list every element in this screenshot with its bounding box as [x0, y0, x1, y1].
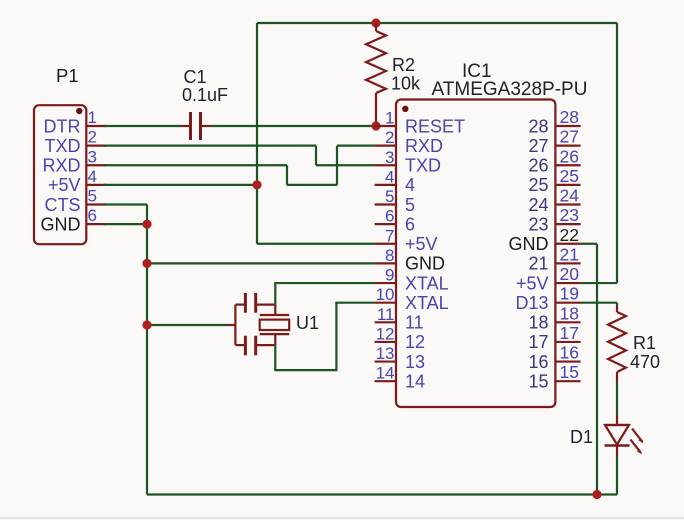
wire XTAL1 net: resonator to IC1.9: [275, 283, 374, 305]
wire +5V drop to IC1.20: [581, 23, 617, 283]
IC1 pin 10 XTAL: [375, 285, 449, 313]
IC1 pin 18 18: [528, 303, 580, 332]
P1 pin 6 GND: [41, 206, 107, 234]
svg-text:22: 22: [560, 225, 579, 245]
svg-text:17: 17: [528, 332, 548, 352]
svg-text:P1: P1: [56, 65, 79, 86]
IC1 pin 26 26: [528, 146, 580, 175]
svg-text:R2: R2: [392, 55, 415, 75]
svg-text:26: 26: [560, 146, 579, 166]
svg-text:4: 4: [405, 175, 415, 195]
wire GND from IC1.22: [581, 244, 597, 495]
svg-text:15: 15: [560, 362, 579, 382]
IC1 pin 17 17: [528, 323, 580, 352]
wire DTR net: P1.1 to C1: [104, 125, 181, 127]
svg-text:3: 3: [88, 147, 97, 166]
wire RESET net: C1 to IC1.1: [211, 125, 375, 127]
svg-text:6: 6: [88, 206, 97, 225]
wire GND left rail vertical: [146, 205, 148, 495]
svg-text:9: 9: [385, 266, 394, 285]
svg-text:+5V: +5V: [516, 273, 549, 293]
svg-text:R1: R1: [633, 333, 656, 353]
IC1 pin 4 4: [375, 167, 415, 195]
P1 pin 2 TXD: [45, 128, 107, 156]
svg-text:15: 15: [528, 371, 548, 391]
IC1 pin 14 14: [375, 364, 425, 392]
IC1 pin 12 12: [375, 324, 425, 352]
svg-text:U1: U1: [296, 313, 319, 333]
svg-text:25: 25: [528, 175, 548, 195]
svg-text:28: 28: [560, 107, 579, 127]
svg-text:ATMEGA328P-PU: ATMEGA328P-PU: [432, 79, 588, 100]
svg-text:TXD: TXD: [45, 136, 81, 156]
wire XTAL2 net: resonator to IC1.10: [275, 303, 374, 370]
D1 name label: [570, 427, 593, 447]
svg-text:0.1uF: 0.1uF: [182, 85, 228, 105]
svg-text:18: 18: [528, 313, 548, 333]
wire +5V net: P1.4 to riser: [104, 184, 257, 186]
svg-text:10k: 10k: [391, 74, 421, 94]
R1 name label: [633, 333, 656, 353]
svg-text:D13: D13: [515, 293, 548, 313]
R2 name label: [392, 55, 415, 75]
svg-text:8: 8: [385, 246, 394, 265]
svg-text:2: 2: [88, 128, 97, 147]
IC1 pin 3 TXD: [375, 148, 441, 176]
wire RXD net: P1.3 to jog: [104, 164, 287, 166]
IC1 pin 19 D13: [515, 284, 580, 313]
svg-text:2: 2: [385, 128, 394, 147]
svg-text:4: 4: [385, 167, 394, 186]
wire TXD net into IC1.3: [316, 164, 375, 166]
wire TXD jog down: [315, 146, 317, 166]
wire +5V riser vertical: [256, 23, 258, 244]
svg-text:27: 27: [560, 127, 579, 147]
P1 pin 3 RXD: [42, 147, 106, 175]
svg-text:XTAL: XTAL: [405, 273, 449, 293]
IC1 pin 24 24: [528, 186, 580, 215]
svg-text:5: 5: [88, 187, 97, 206]
P1 pin 1 DTR: [44, 108, 107, 136]
svg-text:7: 7: [385, 226, 394, 245]
svg-text:13: 13: [376, 344, 395, 363]
svg-text:21: 21: [528, 254, 548, 274]
IC1 pin 13 13: [375, 344, 425, 372]
svg-text:DTR: DTR: [44, 116, 81, 136]
wire D13 net: IC1.19 to R1: [581, 303, 617, 306]
svg-text:4: 4: [88, 167, 97, 186]
wire D1 to GND bottom rail: [616, 456, 618, 495]
IC1 pin 15 15: [528, 362, 580, 391]
IC1 pin 2 RXD: [375, 128, 443, 156]
connector P1: [34, 105, 86, 244]
R1 value 470: [630, 352, 660, 372]
svg-text:26: 26: [528, 156, 548, 176]
wire GND into IC1.8: [147, 262, 375, 264]
P1 pin 4 +5V: [48, 167, 106, 195]
svg-text:CTS: CTS: [45, 195, 81, 215]
C1 value 0.1uF: [182, 85, 228, 105]
P1 pin 5 CTS: [45, 187, 107, 215]
IC1 pin 7 +5V: [375, 226, 438, 254]
IC1 pin 6 6: [375, 207, 415, 235]
svg-text:TXD: TXD: [405, 156, 441, 176]
IC1 pin 25 25: [528, 166, 580, 195]
svg-text:20: 20: [560, 264, 580, 284]
svg-text:11: 11: [377, 305, 395, 324]
svg-text:16: 16: [528, 352, 548, 372]
svg-text:24: 24: [560, 186, 580, 206]
IC1 pin 23 23: [528, 205, 580, 234]
svg-text:11: 11: [405, 313, 424, 333]
P1 reference label: [56, 65, 79, 86]
svg-text:19: 19: [560, 284, 579, 304]
svg-text:GND: GND: [41, 214, 81, 234]
junction +5V at P1 row: [252, 180, 261, 189]
U1 name label: [296, 313, 319, 333]
svg-text:17: 17: [560, 323, 579, 343]
svg-text:C1: C1: [184, 67, 207, 87]
svg-text:6: 6: [405, 214, 415, 234]
IC1 pin 28 28: [528, 107, 580, 136]
resistor R1: [608, 306, 626, 382]
svg-text:10: 10: [376, 285, 395, 304]
svg-text:24: 24: [528, 195, 548, 215]
svg-text:5: 5: [385, 187, 394, 206]
junction GND rail at P1.6: [142, 220, 151, 229]
svg-text:14: 14: [376, 364, 395, 383]
capacitor C1: [181, 112, 211, 140]
IC1 value ATMEGA328P-PU: [432, 79, 588, 100]
wire +5V top rail: [257, 22, 617, 24]
IC1 pin 9 XTAL: [375, 266, 449, 294]
svg-text:21: 21: [560, 244, 579, 264]
svg-text:GND: GND: [509, 234, 549, 254]
svg-text:RXD: RXD: [405, 136, 443, 156]
decorative: [0, 517, 684, 519]
wire RXD jog up: [336, 146, 338, 185]
junction GND rail at IC1.8: [142, 259, 151, 268]
wire RXD horizontal jog: [287, 184, 337, 186]
svg-text:23: 23: [528, 214, 548, 234]
svg-text:+5V: +5V: [405, 234, 438, 254]
IC1 pin 21 21: [528, 244, 580, 273]
wire GND net: P1.6 to rail: [104, 223, 147, 225]
junction GND rail at resonator: [142, 320, 151, 329]
svg-text:D1: D1: [570, 427, 593, 447]
svg-text:GND: GND: [405, 254, 445, 274]
svg-text:6: 6: [385, 207, 394, 226]
R2 value 10k: [391, 74, 421, 94]
svg-text:13: 13: [405, 352, 425, 372]
svg-text:16: 16: [560, 343, 579, 363]
LED D1: [605, 415, 644, 456]
wire RXD jog down: [286, 165, 288, 185]
IC1 pin 16 16: [528, 343, 580, 372]
IC1 pin 1 RESET: [375, 109, 465, 137]
svg-text:470: 470: [630, 352, 660, 372]
IC1 pin 5 5: [375, 187, 415, 215]
svg-text:12: 12: [405, 332, 425, 352]
IC1 pin 11 11: [375, 305, 424, 333]
svg-text:23: 23: [560, 205, 579, 225]
wire RXD net into IC1.2: [337, 145, 375, 147]
wire CTS net: P1.5 right: [104, 203, 147, 205]
wire R1 to D1: [616, 382, 618, 415]
svg-text:28: 28: [528, 116, 548, 136]
svg-text:3: 3: [385, 148, 394, 167]
junction R2 bottom / RESET: [371, 121, 380, 130]
svg-text:1: 1: [88, 108, 97, 127]
svg-text:14: 14: [405, 371, 425, 391]
wire TXD net: P1.2 to jog: [104, 145, 316, 147]
IC1 reference label: [462, 61, 492, 82]
svg-text:1: 1: [385, 109, 394, 128]
wire GND bottom rail: [147, 493, 617, 495]
svg-text:27: 27: [528, 136, 548, 156]
svg-text:XTAL: XTAL: [405, 293, 449, 313]
resistor R2: [366, 23, 386, 126]
svg-text:18: 18: [560, 303, 579, 323]
IC1 pin 8 GND: [375, 246, 445, 274]
IC1 pin 20 +5V: [516, 264, 581, 293]
wire GND to resonator: [147, 324, 227, 326]
svg-text:RXD: RXD: [42, 156, 80, 176]
svg-text:+5V: +5V: [48, 175, 81, 195]
resonator U1: [227, 293, 289, 355]
svg-text:25: 25: [560, 166, 579, 186]
junction top rail at R2: [371, 18, 380, 27]
svg-text:RESET: RESET: [405, 116, 465, 136]
junction GND bottom: [592, 490, 601, 499]
svg-text:5: 5: [405, 195, 415, 215]
wire +5V into IC1.7: [257, 243, 375, 245]
svg-text:12: 12: [376, 324, 395, 343]
op-amp? no: IC IC1 ATMEGA328P-PU body: [396, 100, 555, 408]
IC1 pin 27 27: [528, 127, 580, 156]
IC1 pin 22 GND: [509, 225, 581, 254]
C1 name label: [184, 67, 207, 87]
